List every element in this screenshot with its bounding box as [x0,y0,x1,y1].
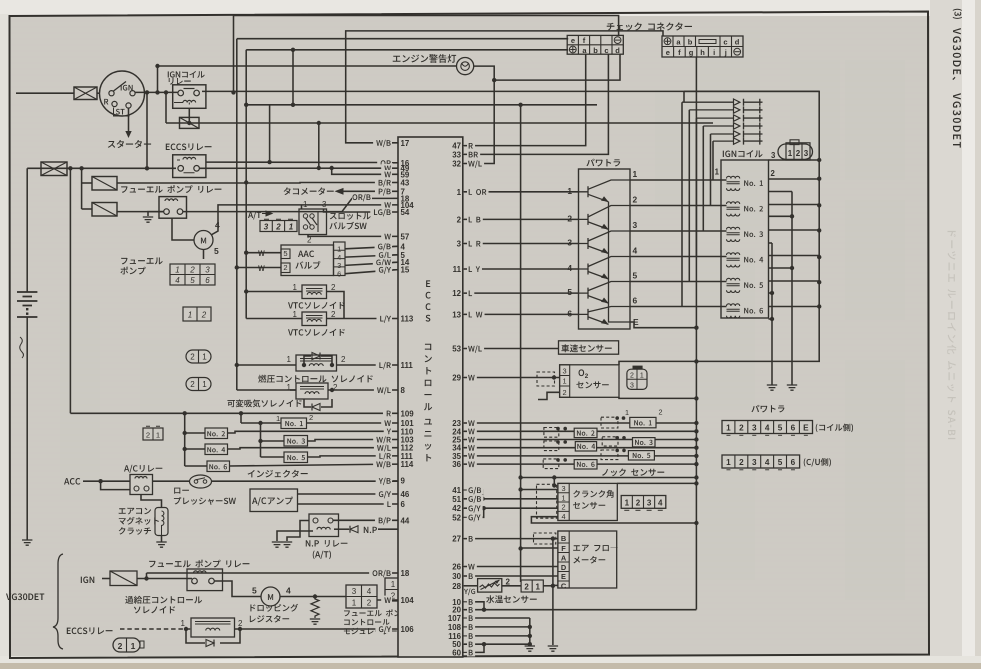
svg-text:57: 57 [401,232,410,241]
AC amp box [250,489,298,512]
wire NP to ECCS [378,528,398,530]
connector oval 2|1 det [113,638,140,652]
bus x236 down to solenoid feeds [236,39,238,390]
svg-text:2: 2 [561,503,565,512]
ground fuel pump relay [143,217,153,222]
ECCS control unit box [398,137,463,657]
injector No6 box [207,461,230,472]
svg-text:4: 4 [175,276,180,285]
wire fuel pump relay to pin18 OR/B [183,198,398,211]
wire AC amp to pin46 [298,493,399,495]
svg-text:1: 1 [352,599,357,608]
label variable intake solenoid [227,399,301,407]
svg-text:b: b [593,46,598,55]
wire VTC1 pins [246,291,302,293]
B wires 50/60 [467,644,484,652]
wires ECCS to powtra bases [464,191,579,193]
svg-text:113: 113 [401,315,414,324]
svg-text:1: 1 [175,266,179,275]
ground coil bus A [787,385,797,390]
label air flow meter [573,545,618,552]
switch output row y92 to coil loop [135,91,178,93]
margin ghost text [947,231,956,439]
bus row A to check minus [234,16,619,93]
svg-text:43: 43 [401,179,410,188]
svg-text:2: 2 [189,266,195,275]
label knock sensor [602,468,664,476]
knock sensor row [521,477,697,479]
link row y123 to ignition coil No1 bus [166,122,713,124]
ignition switch feed fuse [74,87,97,100]
svg-text:33: 33 [452,150,461,159]
svg-text:5: 5 [214,246,219,256]
ACC branch to coil [101,481,130,489]
ignition switch [100,71,145,116]
coil pin2 outputs [769,178,820,180]
check connector right table [662,36,743,57]
coil no4 sec [769,267,793,269]
label throttle valve SW [330,212,371,219]
svg-text:1: 1 [726,458,731,467]
spark plug rows [682,99,763,145]
links feed riser x82 [81,168,83,209]
wire battery to ground [26,317,28,540]
injector connector No1 [601,417,618,428]
label A/T [248,211,261,219]
airflow dashed connector [534,533,556,544]
svg-text:109: 109 [401,409,415,418]
wire 30 to E [464,575,558,577]
label N.P [364,527,377,533]
coil box top pin3 wire [769,159,820,161]
fuse det [110,571,137,586]
coil secondary bus A [791,192,793,386]
B wires 107/108/116 [467,617,530,619]
svg-text:4: 4 [765,424,770,433]
svg-text:i: i [713,48,715,57]
wire det relay to pump motor [215,581,262,597]
row b-cell y105 [246,104,597,106]
margin text (3) VG30DE VG30DET [953,9,962,19]
svg-text:1: 1 [715,168,720,177]
svg-text:8: 8 [401,386,406,395]
ground dropping resistor [310,619,320,624]
wire pin47 R to a-cell [464,54,586,145]
svg-text:1: 1 [535,583,540,592]
VTC solenoid 2 [302,312,327,326]
svg-text:1: 1 [188,311,192,320]
link F4 feed [82,208,92,210]
wire throttle pin1 to 104 row [301,205,303,209]
svg-text:2: 2 [633,195,638,205]
low pressure switch oval [190,475,212,488]
svg-text:4: 4 [765,458,770,467]
ignition coil units [727,176,764,318]
coil no5 sec [769,292,773,294]
svg-text:3: 3 [630,383,634,390]
svg-text:4: 4 [561,512,565,521]
O2 pin2 stub [538,392,560,399]
bus x293 to b-cell row [292,50,294,105]
svg-text:C: C [561,582,567,591]
variable intake solenoid [296,383,328,399]
svg-text:1: 1 [726,424,731,433]
dropping resistor [311,597,319,619]
coil secondary bus B [771,243,773,385]
bus row plus-cell [246,49,568,51]
label IGN coil [723,150,763,157]
svg-text:c: c [723,38,727,47]
wire NP relay B/P pin44 [333,519,398,521]
powtra connector coil side [722,421,813,436]
svg-text:2: 2 [201,311,207,320]
crank connector dashed [537,484,557,518]
svg-text:1: 1 [391,580,396,589]
svg-text:2: 2 [636,499,641,508]
riser x157 to lamp row [157,66,159,92]
svg-text:3: 3 [804,149,809,158]
svg-text:2: 2 [771,169,776,178]
svg-text:4: 4 [567,263,572,273]
ground coil bus B [767,385,777,390]
wire relay contact to ignition coils supply [202,90,819,92]
svg-text:2: 2 [190,380,195,389]
bus x246 down to VTC feeds [245,50,247,319]
crank pin3 wire [521,489,558,491]
wire fuse to det relay [137,578,192,580]
speed sensor wire [464,348,559,350]
injector connector No5 [601,450,618,460]
svg-text:1: 1 [625,499,630,508]
svg-text:e: e [571,36,575,45]
svg-text:1: 1 [202,353,207,362]
svg-text:5: 5 [283,249,287,258]
label O2 sensor [579,369,585,376]
svg-text:c: c [604,46,608,55]
check connector left table [567,35,623,54]
svg-text:9: 9 [401,477,406,486]
label powtra connectors [751,405,784,413]
power transistor box [579,169,631,329]
main feed row y168 battery-fuse-ECCS relay [27,167,176,169]
label fuel pump relay det [149,560,249,568]
svg-text:D: D [561,563,567,572]
wire airflow F to bus [521,547,558,549]
fusible link F4 [92,203,117,217]
connector oval 2|1 b [186,378,211,391]
wire throttle pin2 to 57 row [308,235,398,237]
wire to No5 [261,456,285,458]
ground clutch [156,542,166,547]
connector 34/12 modulator [346,585,377,608]
svg-text:111: 111 [401,361,414,370]
svg-text:1: 1 [633,169,638,179]
wire pin17 W/B riser [346,31,663,143]
svg-text:28: 28 [452,582,461,591]
relay fuel pump relay det [187,569,223,591]
svg-text:2: 2 [796,149,801,158]
wire AAC pin5 W [246,252,281,254]
label NP relay [306,540,348,547]
svg-text:1: 1 [625,408,629,417]
wire VTC2 pins to 113 [246,318,302,320]
wire var intake to pin8 [290,389,296,391]
svg-text:4: 4 [286,586,291,596]
wires AAC outputs [345,246,398,249]
svg-text:2: 2 [238,619,243,628]
label ACC [64,478,80,485]
wire lamp to check d and pin32 [464,66,494,163]
wire inj4 row [464,447,696,449]
svg-text:d: d [615,46,620,55]
svg-text:106: 106 [401,625,415,634]
svg-text:2: 2 [659,408,663,417]
ground B bus [525,646,535,651]
engine warning lamp [457,58,474,75]
svg-text:j: j [724,48,727,57]
ECCS vertical label [426,280,430,287]
connector 123/456 [170,264,215,285]
label OR/B18 slant [352,193,372,201]
wire 27 to airflow B [464,538,558,540]
bus x520 down [520,105,522,582]
svg-text:52: 52 [452,513,461,522]
svg-text:3: 3 [563,367,567,376]
svg-text:2: 2 [118,641,123,651]
wire 28 to water temp [464,585,478,587]
label check connector [607,22,692,30]
svg-text:6: 6 [337,270,341,279]
svg-text:b: b [688,38,693,47]
ground bus x552 [552,539,554,645]
svg-text:1: 1 [131,641,136,651]
svg-text:6: 6 [567,308,572,318]
svg-text:2: 2 [739,458,744,467]
powtra connector CU side [722,455,800,470]
wire ECCS relay to pin16 OR [206,161,398,163]
VTC solenoid 1 [302,285,327,299]
svg-text:2: 2 [630,373,634,380]
O2 sensor wire pin29 [464,377,560,379]
air flow meter box [558,531,617,588]
injector No2 box [205,428,228,439]
svg-text:32: 32 [452,160,461,169]
svg-text:3: 3 [561,484,565,493]
label water temp sensor [486,595,537,603]
crank pin1 wire 41/51 [467,490,483,499]
svg-text:F: F [561,544,566,553]
wire to No4 [185,448,205,450]
svg-text:108: 108 [448,623,462,632]
svg-text:2: 2 [457,215,462,224]
crank angle sensor box [558,483,617,520]
VG30DET brace [53,554,63,649]
label IGN det [81,577,95,584]
svg-text:4: 4 [633,246,638,256]
svg-text:1: 1 [788,149,793,158]
svg-text:2: 2 [585,373,589,380]
relay ECCS relay [173,155,206,178]
label injector [248,470,308,478]
wire to No3 [261,440,285,442]
svg-text:E: E [803,424,809,433]
wire inj2 row [464,430,696,432]
label speed sensor [561,344,611,352]
svg-text:6: 6 [401,500,406,509]
wire ACC feed [83,480,130,482]
riser x147 to ECCS relay [146,92,148,168]
fusible link F3 [92,177,117,191]
svg-text:2: 2 [283,263,287,272]
svg-text:3: 3 [647,499,652,508]
svg-text:17: 17 [401,139,410,148]
svg-text:114: 114 [401,460,414,469]
svg-text:6: 6 [633,296,638,306]
coil supply loop top [684,91,819,361]
svg-text:6: 6 [791,424,796,433]
wire x236 end to variable intake solenoid [237,389,296,391]
O2 sensor icon [627,369,647,389]
svg-text:2: 2 [739,424,744,433]
wire AC relay down to clutch [141,495,162,508]
svg-text:30: 30 [452,572,461,581]
svg-text:36: 36 [452,460,461,469]
svg-text:d: d [735,38,740,47]
wire inj6 row [464,463,696,465]
svg-text:53: 53 [452,345,461,354]
wire throttle pin3 to 54 row [324,209,399,212]
svg-text:2: 2 [563,388,567,397]
NP coil to ground [277,531,313,541]
svg-text:104: 104 [401,596,415,605]
label AAC valve [298,251,314,258]
wire pin18det OR/B [147,572,399,574]
connector 2|1 injector [143,428,163,440]
connector oval 123 coil [778,144,813,159]
svg-text:29: 29 [452,374,461,383]
svg-text:1: 1 [640,373,644,380]
svg-text:1: 1 [567,186,572,196]
svg-text:2: 2 [567,213,572,223]
wire boost to pin106 [235,628,399,630]
svg-text:h: h [700,48,705,57]
wire fuse to ignition switch [97,92,100,94]
wires powtra outputs to coils [630,179,727,181]
svg-text:e: e [666,48,670,57]
svg-text:41: 41 [452,486,461,495]
wire inj3 row [464,439,696,441]
fuel pump motor det [261,587,280,606]
ECCS left pin numbers and wire labels [369,138,414,634]
label fuel pump [121,257,162,264]
O2 sensor box [560,365,619,398]
svg-text:1: 1 [202,380,207,389]
svg-text:3: 3 [771,151,776,160]
wire AC amp to pin6 [298,503,399,505]
relay fuel pump relay [159,197,187,219]
label powtra top [586,159,620,167]
injector connector No6 [543,459,559,469]
wire relay coil to link row [188,108,190,123]
wire frame-left to fuse [16,92,74,94]
svg-text:51: 51 [452,495,461,504]
injector No1 box [281,418,307,429]
wire powtra E to right bus [630,322,696,328]
svg-text:2: 2 [190,353,195,362]
injector No5 box [284,452,308,463]
diode loop pressure solenoid [304,356,311,365]
wire NP relay left to ground [287,521,309,542]
crank connector 1234 [621,496,666,511]
bus check-g down right side [695,57,697,610]
svg-text:1: 1 [181,619,186,628]
wire water connector to ground bus [543,585,553,587]
svg-text:3: 3 [352,587,357,596]
wire airflow C to bus [553,584,558,586]
wire link F3 to pin43 B/R [117,182,398,185]
fusible link F2 below relay [180,117,200,128]
svg-text:107: 107 [448,614,462,623]
pin49 row W from relay contact [199,167,398,169]
O2 sensor bottom wire [619,397,696,398]
wire AAC pin2 W [237,267,281,269]
loop left drop [683,91,685,102]
svg-text:3: 3 [752,424,757,433]
connector oval 2|1 a [186,350,211,363]
svg-text:3: 3 [457,240,462,249]
svg-text:4: 4 [658,499,663,508]
svg-text:3: 3 [205,266,210,275]
label engine warning lamp [393,54,456,63]
label ECCS relay [166,143,212,150]
wire 26 to D [464,566,558,568]
connector 1|2 [183,307,211,321]
wire to No2 [185,432,205,434]
riser x269 from b-row to OR row [269,105,271,162]
link F3 feed [82,182,92,184]
AAC valve box [281,245,334,276]
wire ST to starter arrow [128,108,130,133]
relay AC relay [130,475,153,495]
svg-text:g: g [689,48,694,57]
riser x318 from link row [318,123,320,168]
label starter [108,140,151,148]
wire ECCS relay det dashes [120,628,191,630]
svg-text:2: 2 [146,431,150,440]
wire AC relay to low pressure SW [153,480,191,482]
connector 13/24 [385,578,416,601]
relay NP relay [309,514,339,537]
wire water temp to connector [502,585,521,587]
svg-text:1: 1 [561,493,565,502]
scan mark scribble [20,337,24,358]
boost solenoid det [191,618,235,637]
svg-text:5: 5 [252,586,257,596]
injector connector No2 [544,428,559,438]
wire tachometer stub pin7 [341,190,398,192]
injector output wires [307,422,399,424]
injector No3 box [284,436,308,447]
riser x166 to fusible link row [165,92,167,123]
diode loop variable intake [304,399,311,407]
svg-text:3: 3 [752,458,757,467]
fusible link F1 (left) [41,162,67,176]
bus row e-cell [237,38,568,40]
injector feed row R109 [70,412,398,414]
svg-text:47: 47 [452,142,461,151]
label fuel pump control modulator [344,609,409,616]
label pressure control solenoid [258,375,372,383]
